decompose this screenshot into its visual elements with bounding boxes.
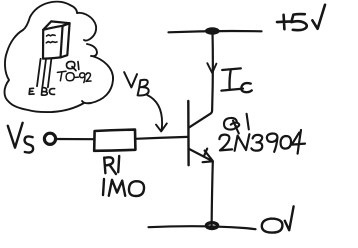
thought bubble cloud — [5, 2, 114, 112]
TO-92 package side face — [61, 23, 70, 57]
label 1M0 — [103, 179, 144, 196]
terminal Vs (input circle) — [44, 133, 55, 144]
label +5V — [277, 5, 325, 30]
label VB — [124, 72, 148, 95]
node junction at 0V rail — [206, 223, 217, 229]
pin label C — [49, 89, 54, 95]
label Q1 (in cloud) — [66, 61, 78, 70]
label R1 — [104, 156, 119, 174]
current arrow Ic on collector wire — [207, 63, 216, 73]
label 0V — [262, 206, 294, 232]
transistor Q1 base bar — [187, 101, 190, 165]
pin label B — [42, 88, 48, 96]
collector wire from rail — [189, 32, 213, 128]
TO-92 lead B — [42, 59, 46, 87]
+5V rail wire — [169, 31, 262, 32]
label Q1 (at transistor) — [224, 114, 249, 134]
TO-92 lead C — [48, 59, 52, 88]
TO-92 marking squiggle line 1 — [47, 35, 56, 36]
wire R1 to base — [135, 137, 187, 139]
transistor Q1 emitter with arrow — [189, 149, 213, 163]
arrow from VB to base wire — [147, 95, 167, 131]
resistor R1 (box) — [94, 130, 135, 151]
label Ic — [221, 68, 251, 92]
emitter wire down to 0V rail — [212, 162, 213, 227]
label Vs — [8, 123, 33, 153]
pin label E — [29, 88, 34, 94]
TO-92 lead E — [37, 59, 41, 86]
label TO-92 (in cloud) — [57, 71, 91, 82]
wire Vs terminal to R1 — [56, 138, 94, 140]
0V rail wire — [149, 226, 256, 229]
node junction at +5V rail — [206, 28, 219, 34]
label 2N3904 — [219, 130, 305, 154]
TO-92 marking squiggle line 2 — [46, 42, 57, 43]
TO-92 package top face — [43, 21, 69, 29]
TO-92 package body (front face) — [43, 26, 63, 59]
